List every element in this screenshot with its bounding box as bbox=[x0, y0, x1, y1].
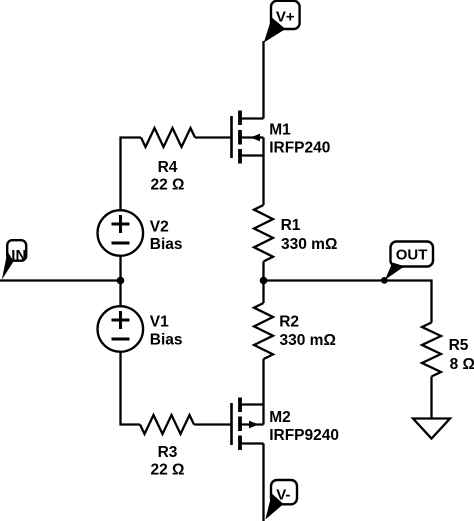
svg-text:V+: V+ bbox=[276, 9, 295, 26]
svg-text:IRFP9240: IRFP9240 bbox=[269, 427, 339, 444]
flag V+ bbox=[264, 1, 300, 43]
svg-text:M2: M2 bbox=[269, 409, 291, 426]
svg-text:Bias: Bias bbox=[150, 236, 183, 253]
svg-text:Bias: Bias bbox=[150, 332, 183, 349]
svg-text:22 Ω: 22 Ω bbox=[151, 177, 185, 194]
node junction dot center bbox=[260, 277, 268, 285]
svg-text:R2: R2 bbox=[279, 314, 299, 331]
wire M2 source to V- bbox=[262, 444, 264, 521]
wire node to R2 bbox=[262, 281, 264, 304]
svg-text:V2: V2 bbox=[150, 218, 169, 235]
wire M1 source to R1 bbox=[262, 156, 264, 206]
svg-text:IN: IN bbox=[11, 247, 26, 264]
svg-text:OUT: OUT bbox=[396, 246, 428, 263]
source V2 bbox=[98, 210, 144, 256]
svg-text:M1: M1 bbox=[269, 122, 291, 139]
svg-text:V1: V1 bbox=[150, 314, 169, 331]
svg-text:IRFP240: IRFP240 bbox=[269, 140, 330, 157]
svg-text:8 Ω: 8 Ω bbox=[450, 356, 474, 373]
wire R1 to node OUT bbox=[262, 262, 264, 281]
svg-text:R5: R5 bbox=[449, 337, 469, 354]
transistor M1 bbox=[232, 111, 264, 164]
wire R4 to M1 gate bbox=[195, 136, 230, 138]
svg-text:330 mΩ: 330 mΩ bbox=[280, 332, 336, 349]
resistor R3 bbox=[140, 415, 194, 434]
resistor R4 bbox=[141, 128, 195, 147]
svg-text:R4: R4 bbox=[158, 159, 178, 176]
flag IN bbox=[2, 240, 27, 280]
wire node to OUT corner bbox=[264, 281, 432, 323]
svg-text:R1: R1 bbox=[281, 217, 301, 234]
wire V2 to R4 corner bbox=[121, 138, 142, 210]
wire R2 to M2 drain bbox=[262, 359, 264, 405]
node junction dot left bbox=[117, 277, 125, 285]
wire node down to V1 bbox=[119, 281, 121, 306]
flag OUT bbox=[381, 242, 433, 284]
resistor R2 bbox=[254, 303, 273, 359]
wire R3 to M2 gate bbox=[194, 423, 230, 425]
svg-text:330 mΩ: 330 mΩ bbox=[281, 236, 337, 253]
wire R5 to ground bbox=[430, 377, 432, 418]
wire V+ to M1 drain bbox=[262, 41, 264, 119]
resistor R5 bbox=[422, 323, 441, 377]
transistor M2 bbox=[232, 398, 264, 451]
svg-text:R3: R3 bbox=[158, 444, 178, 461]
source V1 bbox=[98, 306, 144, 352]
wire IN to left node bbox=[0, 279, 121, 281]
svg-text:22 Ω: 22 Ω bbox=[151, 462, 185, 479]
resistor R1 bbox=[254, 205, 273, 262]
flag V- bbox=[265, 480, 297, 520]
ground bbox=[413, 419, 450, 439]
wire node up to V2 bbox=[119, 256, 121, 281]
wire V1 to R3 corner bbox=[121, 352, 141, 424]
svg-text:V-: V- bbox=[276, 487, 290, 504]
